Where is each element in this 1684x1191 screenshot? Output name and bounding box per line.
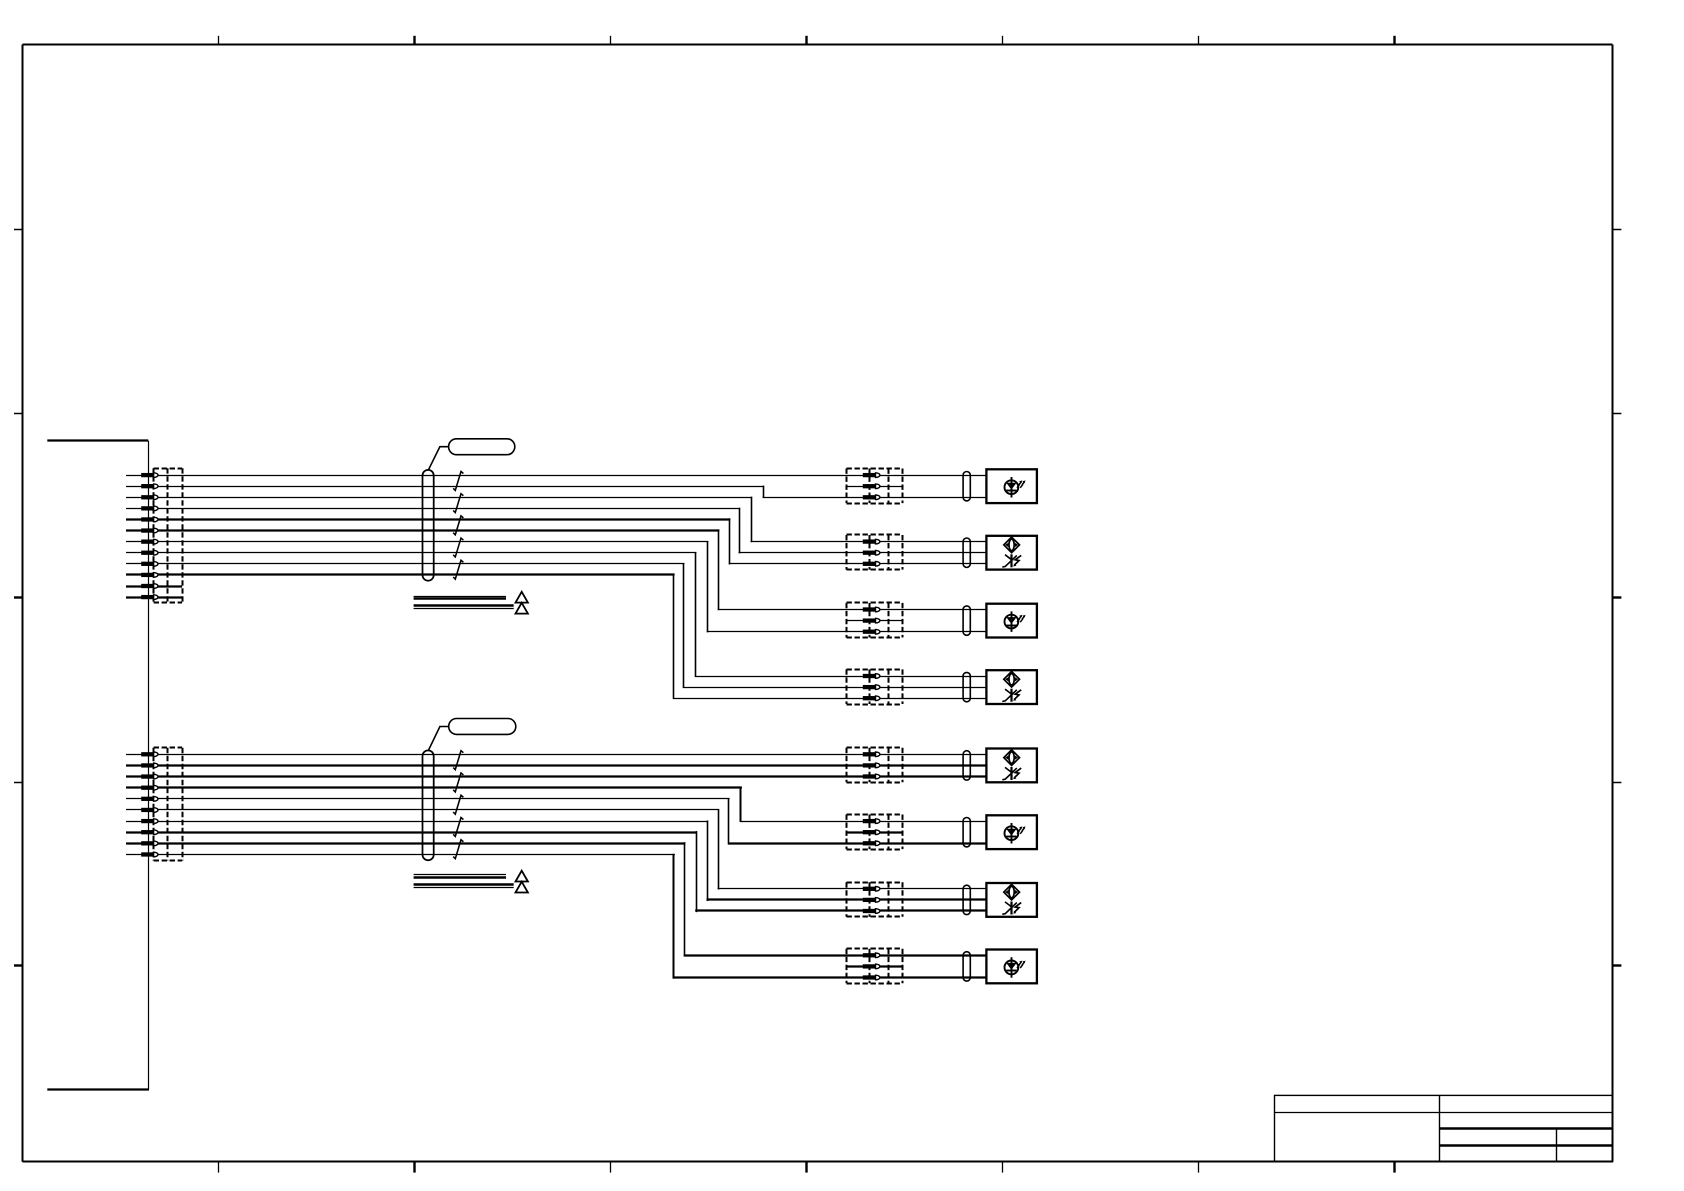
- connector K1 pins: [863, 473, 880, 500]
- wire upper pin8: [126, 552, 986, 677]
- connector K6 housing (dashed): [847, 815, 903, 850]
- connector X1 pins (upper bank): [141, 473, 158, 600]
- proximity sensor device 2: [986, 536, 1037, 570]
- wire upper pin7: [126, 541, 986, 632]
- screen/shield symbol lower: [414, 871, 528, 893]
- connector X2 pins (lower bank): [141, 752, 158, 857]
- wire lower pin6: [126, 809, 986, 889]
- wire lower pin7: [126, 820, 986, 901]
- wire lower pin8: [126, 831, 986, 912]
- connector K3 housing (dashed): [847, 603, 903, 638]
- connector K5 pins: [863, 752, 880, 779]
- boot grommet at device 5: [963, 751, 970, 780]
- wire-pair tick upper 5: [453, 560, 463, 579]
- wire lower pin4: [126, 787, 986, 822]
- boot grommet at device 4: [963, 672, 970, 701]
- LED indicator device 1: [986, 469, 1037, 503]
- wire upper pin4: [126, 508, 986, 554]
- connector K5 housing (dashed): [847, 748, 903, 783]
- wire upper pin1 to sensor row1 pin1: [126, 475, 986, 477]
- wire upper pin10: [126, 574, 986, 699]
- boot grommet at device 1: [963, 472, 970, 501]
- boot grommet at device 8: [963, 952, 970, 981]
- wire-pair tick upper 3: [453, 516, 463, 535]
- connector K3 pins: [863, 607, 880, 634]
- wire-pair tick upper 2: [453, 494, 463, 513]
- wire lower pin10: [126, 854, 986, 979]
- wire-pair tick lower 3: [453, 795, 463, 814]
- LED indicator device 6: [986, 815, 1037, 849]
- callout label lower harness: [428, 719, 516, 751]
- boot grommet at device 6: [963, 818, 970, 847]
- connector X1 housing (dashed): [154, 468, 183, 603]
- wire lower pin9: [126, 842, 986, 956]
- harness grommet lower: [423, 750, 434, 860]
- wire lower pin2: [126, 764, 986, 766]
- callout label upper harness: [428, 439, 515, 471]
- connector X2 housing (dashed): [154, 748, 183, 861]
- wire lower pin1: [126, 754, 986, 756]
- LED indicator device 8: [986, 950, 1037, 984]
- stub wire middle pin connector K6: [847, 831, 903, 833]
- stub wire middle pin connector K3: [847, 620, 903, 622]
- harness grommet upper: [423, 470, 434, 581]
- wire upper pin6: [126, 529, 986, 610]
- connector K8 housing (dashed): [847, 949, 903, 984]
- proximity sensor device 7: [986, 883, 1037, 917]
- connector K4 pins: [863, 674, 880, 701]
- title block: [1275, 1095, 1613, 1161]
- connector K8 pins: [863, 953, 880, 980]
- wire upper pin12 stub: [126, 596, 182, 598]
- connector K7 housing (dashed): [847, 882, 903, 917]
- connector K6 pins: [863, 819, 880, 846]
- LED indicator device 3: [986, 604, 1037, 638]
- wire upper pin2: [126, 486, 986, 498]
- wire-pair tick lower 2: [453, 773, 463, 792]
- wire-pair tick lower 1: [453, 751, 463, 770]
- boot grommet at device 3: [963, 606, 970, 635]
- stub wire middle pin connector K1: [847, 486, 903, 488]
- control unit outline bracket: [47, 441, 149, 1090]
- connector K2 housing (dashed): [847, 535, 903, 570]
- proximity sensor device 4: [986, 670, 1037, 704]
- wire-pair tick upper 1: [453, 472, 463, 491]
- connector K2 pins: [863, 539, 880, 566]
- wire lower pin3: [126, 775, 986, 777]
- screen/shield symbol upper: [414, 592, 528, 614]
- wire-pair tick lower 5: [453, 840, 463, 859]
- stub wire middle pin connector K8: [847, 965, 903, 967]
- wire upper pin3: [126, 497, 986, 543]
- connector K1 housing (dashed): [847, 469, 903, 504]
- wire-pair tick lower 4: [453, 817, 463, 836]
- connector K7 pins: [863, 887, 880, 914]
- proximity sensor device 5: [986, 749, 1037, 783]
- wire lower pin5: [126, 798, 986, 844]
- boot grommet at device 2: [963, 538, 970, 567]
- connector K4 housing (dashed): [847, 669, 903, 704]
- wire upper pin5: [126, 518, 986, 564]
- wire upper pin11 stub: [126, 585, 182, 587]
- wire upper pin9: [126, 563, 986, 688]
- boot grommet at device 7: [963, 885, 970, 914]
- wire-pair tick upper 4: [453, 538, 463, 557]
